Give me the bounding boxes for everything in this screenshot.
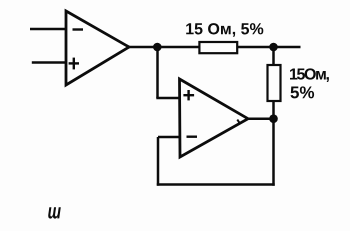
wire: [237, 119, 273, 124]
wire: [272, 101, 275, 119]
value label R2: [290, 68, 329, 98]
node B: [269, 43, 278, 52]
wire: [129, 46, 301, 49]
resistor R2: [268, 65, 281, 101]
op-amp U2: [180, 79, 249, 157]
op-amp U1: [66, 11, 129, 85]
node C: [269, 114, 278, 123]
wire: [32, 61, 66, 64]
wire: [156, 47, 159, 98]
value label R1: [186, 23, 263, 37]
wire: [156, 97, 179, 100]
wire: [157, 183, 275, 186]
wire: [272, 119, 275, 186]
wire: [30, 28, 66, 31]
wire: [272, 47, 275, 65]
resistor R1: [199, 42, 237, 53]
figure label ш: [48, 207, 61, 218]
wire: [158, 136, 180, 139]
wire: [157, 137, 160, 186]
node A: [153, 43, 162, 52]
